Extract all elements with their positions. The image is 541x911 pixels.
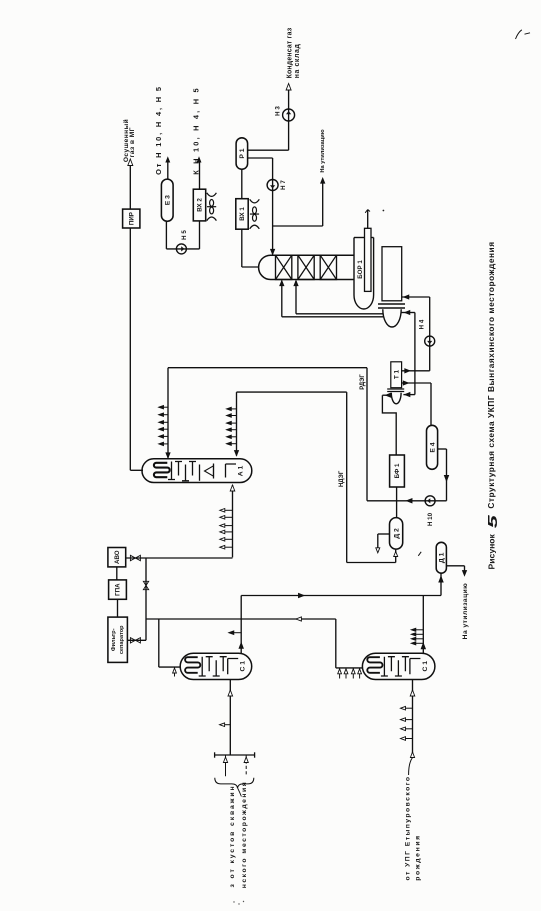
svg-text:С 1: С 1 xyxy=(240,661,247,672)
svg-text:Н 5: Н 5 xyxy=(181,230,188,240)
svg-text:газ в МГ: газ в МГ xyxy=(129,127,136,157)
svg-text:нского месторождения: нского месторождения xyxy=(241,781,248,888)
svg-text:А 1: А 1 xyxy=(238,465,245,476)
svg-text:Структурная схема УКПГ Вынг: Структурная схема УКПГ Вынгаяхинского ме… xyxy=(486,241,496,508)
svg-text:БОР 1: БОР 1 xyxy=(357,260,364,279)
svg-text:Д 2: Д 2 xyxy=(393,528,400,539)
svg-text:Н 7: Н 7 xyxy=(280,180,287,190)
svg-text:Т 1: Т 1 xyxy=(393,369,400,379)
svg-text:Рисунок: Рисунок xyxy=(487,533,497,569)
svg-text:Д 1: Д 1 xyxy=(439,552,446,563)
svg-text:рождения: рождения xyxy=(415,834,422,881)
svg-text:5: 5 xyxy=(485,514,500,528)
svg-text:Р 1: Р 1 xyxy=(239,148,246,158)
svg-text:Конденсат газ: Конденсат газ xyxy=(287,27,294,78)
svg-text:Е 3: Е 3 xyxy=(165,195,172,205)
svg-text:На утилизацию: На утилизацию xyxy=(462,583,469,640)
svg-text:ВХ 2: ВХ 2 xyxy=(197,198,204,212)
svg-text:НДЭГ: НДЭГ xyxy=(339,470,345,487)
svg-text:ВХ 1: ВХ 1 xyxy=(239,207,246,221)
svg-text:На утилизацию: На утилизацию xyxy=(320,129,326,172)
svg-text:Е 4: Е 4 xyxy=(429,442,436,452)
svg-text:РДЭГ: РДЭГ xyxy=(360,374,366,390)
svg-text:ГПА: ГПА xyxy=(115,583,122,596)
svg-text:сепаратор: сепаратор xyxy=(119,625,125,654)
svg-text:От Н 10, Н 4, Н 5: От Н 10, Н 4, Н 5 xyxy=(154,85,163,175)
svg-text:АВО: АВО xyxy=(114,550,121,564)
svg-text:Н 3: Н 3 xyxy=(274,106,281,116)
svg-text:С 1: С 1 xyxy=(422,661,429,672)
svg-text:на склад: на склад xyxy=(294,44,301,79)
svg-text:Н 4: Н 4 xyxy=(419,319,426,329)
svg-text:ПИР: ПИР xyxy=(128,212,135,225)
svg-text:БФ 1: БФ 1 xyxy=(394,463,401,478)
svg-text:Н 10: Н 10 xyxy=(427,512,434,526)
svg-text:от УПГ Етыпуровского: от УПГ Етыпуровского xyxy=(404,776,411,881)
svg-text:Фильтр-: Фильтр- xyxy=(111,628,117,651)
svg-text:з от кустов скважин: з от кустов скважин xyxy=(229,785,236,888)
